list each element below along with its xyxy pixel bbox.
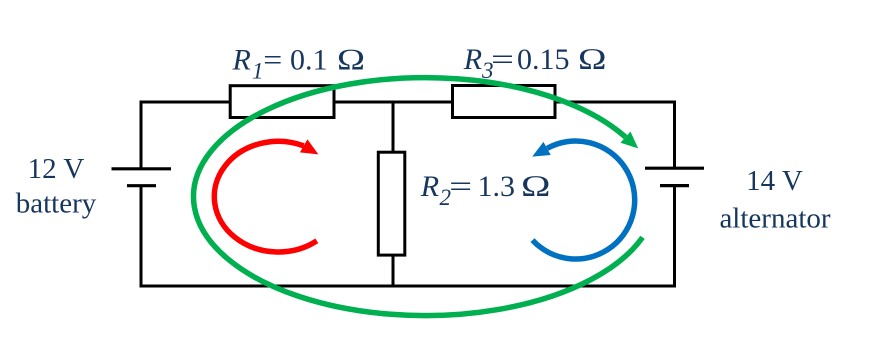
svg-text:Ω: Ω (337, 44, 366, 77)
resistor R3 (453, 86, 556, 118)
wire middle bottom (R2 to bottom wire) (392, 256, 395, 286)
svg-text:0.1: 0.1 (290, 44, 328, 77)
svg-text:=: = (263, 44, 282, 77)
resistor R2 (378, 152, 405, 255)
wire left (battery to bottom) (140, 186, 143, 288)
svg-text:battery: battery (16, 187, 97, 219)
mesh current arrow I2 (blue, counterclockwise) (532, 141, 634, 259)
loop arrow (green ellipse, clockwise) (193, 78, 642, 316)
wire right (top segment to alternator) (673, 101, 676, 169)
svg-text:Ω: Ω (578, 43, 608, 76)
svg-text:R: R (232, 44, 251, 77)
svg-text:alternator: alternator (719, 203, 830, 235)
svg-text:0.15: 0.15 (517, 43, 570, 76)
alternator long plate (645, 167, 704, 170)
wire left (top segment to battery) (140, 101, 143, 169)
wire bottom (140, 285, 677, 288)
svg-text:14 V: 14 V (746, 165, 803, 197)
green arrowhead (621, 132, 639, 149)
label R2 value (420, 170, 551, 210)
blue arrowhead (532, 142, 551, 157)
battery B1 long plate (112, 167, 172, 170)
label R1 value (232, 44, 366, 84)
label R3 value (463, 43, 607, 83)
wire middle top (node to R2) (392, 102, 395, 152)
svg-text:1.3: 1.3 (478, 170, 516, 203)
svg-text:1: 1 (252, 59, 264, 84)
svg-text:R: R (463, 43, 482, 76)
resistor R1 (230, 86, 334, 118)
wire right (alternator to bottom) (673, 186, 676, 288)
battery B1 short plate (127, 184, 156, 187)
mesh current arrow I1 (red, clockwise) (214, 141, 317, 252)
wire top (141, 101, 675, 104)
svg-text:Ω: Ω (521, 170, 552, 203)
svg-text:12 V: 12 V (28, 153, 85, 185)
red arrowhead (300, 139, 318, 154)
alternator short plate (660, 184, 689, 187)
svg-text:R: R (420, 170, 439, 203)
svg-text:=: = (491, 43, 514, 76)
svg-text:=: = (449, 170, 472, 203)
